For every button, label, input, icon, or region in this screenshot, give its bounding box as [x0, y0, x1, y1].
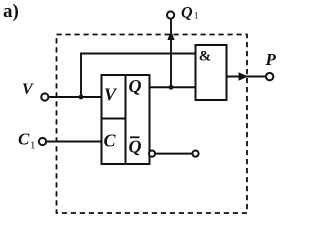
- terminal C1: [39, 138, 46, 145]
- wire Q1 vertical: [170, 19, 172, 88]
- svg-text:&: &: [199, 49, 212, 65]
- svg-text:C: C: [104, 131, 117, 151]
- svg-text:V: V: [22, 81, 34, 98]
- wire V input: [48, 96, 102, 98]
- wire junction up: [80, 53, 82, 97]
- junction V wire / feedback: [79, 95, 84, 100]
- svg-text:Q: Q: [181, 5, 193, 22]
- svg-text:1: 1: [194, 12, 199, 22]
- terminal P: [266, 73, 273, 80]
- wire Q output to AND input 2: [150, 86, 197, 88]
- wire AND output to P: [227, 76, 267, 78]
- AND gate U1: [196, 45, 227, 100]
- flip-flop body: [102, 75, 150, 164]
- terminal Q1: [167, 11, 174, 18]
- svg-text:1: 1: [30, 140, 36, 152]
- flip-flop V/C cell divider: [102, 118, 126, 120]
- svg-text:V: V: [104, 85, 118, 105]
- flip-flop control/output divider: [125, 75, 127, 164]
- wire top to AND input 1: [80, 53, 196, 55]
- svg-text:Q: Q: [129, 76, 142, 96]
- svg-text:C: C: [18, 130, 30, 149]
- terminal Qbar open end: [192, 151, 198, 157]
- terminal Qbar at block edge: [149, 151, 155, 157]
- svg-text:Q: Q: [129, 137, 142, 157]
- junction Q / Q1 tap: [169, 85, 174, 90]
- overbar of Qbar: [130, 136, 140, 138]
- wire C input: [46, 141, 102, 143]
- arrow right at boundary on P wire: [239, 72, 249, 80]
- arrow up at boundary on Q1 wire: [167, 31, 174, 41]
- terminal V: [41, 93, 48, 100]
- svg-text:a): a): [3, 1, 19, 22]
- wire Qbar stub: [155, 153, 192, 155]
- svg-text:P: P: [265, 50, 277, 69]
- dashed enclosure box: [57, 35, 248, 214]
